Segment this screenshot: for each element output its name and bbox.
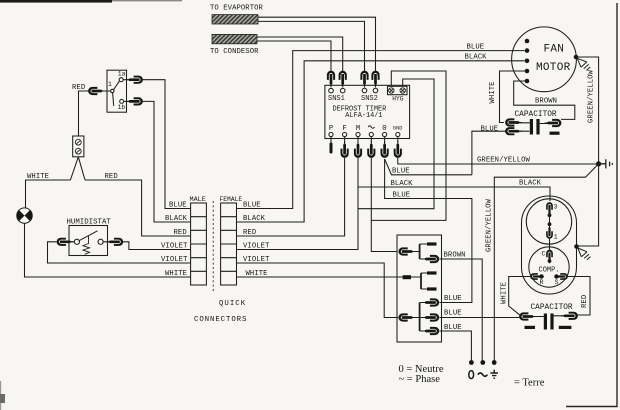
- quick connector terminal block (relay block): [397, 235, 442, 342]
- humidistat sensor zigzag: [83, 236, 90, 255]
- svg-text:1: 1: [108, 81, 112, 88]
- compressor capacitor plates: [544, 314, 547, 330]
- fan capacitor terminal lower-left spade: [505, 127, 522, 135]
- svg-text:SNS2: SNS2: [361, 95, 378, 103]
- wire timer F to female RED row: [237, 158, 345, 236]
- wire fan BROWN to capacitor: [514, 81, 575, 119]
- wire RED compressor S to capacitor: [568, 277, 591, 316]
- compressor capacitor spare bar right: [559, 326, 572, 329]
- svg-text:ALFA-14/1: ALFA-14/1: [345, 112, 382, 120]
- svg-text:1b: 1b: [118, 104, 126, 111]
- wire lamp to male WHITE row: [25, 223, 191, 277]
- wire BLUE block to neutral terminal: [440, 331, 472, 361]
- svg-text:1: 1: [554, 234, 558, 241]
- earth terminal node: [492, 360, 497, 365]
- svg-text:RED: RED: [174, 229, 187, 237]
- wire switch 1b down to male BLACK row: [143, 101, 191, 222]
- svg-text:RED: RED: [243, 229, 256, 237]
- wire timer M to HYG right screw: [358, 79, 434, 209]
- timer pin M: [356, 132, 360, 136]
- block group1 BROWN spade: [423, 255, 440, 263]
- block group2 spare bar bottom: [427, 287, 437, 290]
- compressor chassis earth node: [574, 244, 579, 249]
- earth junction node: [596, 161, 601, 166]
- svg-text:SNS1: SNS1: [328, 95, 345, 103]
- node below C: [548, 259, 552, 263]
- switch feed spade: [88, 87, 105, 95]
- overload terminal 1 spade: [546, 225, 553, 239]
- compressor terminal S spade: [554, 273, 568, 280]
- scan edge top-left: [0, 0, 112, 3]
- wire timer M down to female VIOLET row: [237, 209, 359, 250]
- defrost timer box U1: [325, 85, 410, 138]
- wire timer ~ down to terminal block: [371, 158, 397, 252]
- compressor terminal R node: [539, 274, 543, 278]
- wire switch 1b to male BLACK: [124, 100, 131, 102]
- spade on switch 1b: [126, 97, 143, 105]
- timer pin GND: [396, 132, 400, 136]
- timer pin ~: [369, 132, 373, 136]
- wire fan earth to green/yellow bus: [576, 57, 599, 246]
- svg-text:BLACK: BLACK: [165, 215, 188, 223]
- block group2 spare bar top: [427, 271, 437, 274]
- compressor capacitor left spade: [519, 312, 536, 320]
- wire green/yellow earth terminal to earth junction: [494, 164, 598, 361]
- female quick connector block: [221, 203, 237, 285]
- HYG screw terminal right: [400, 88, 405, 93]
- wire BLUE from timer 0 to fan capacitor (neutral): [385, 159, 472, 175]
- spade on SNS2 b: [371, 71, 379, 88]
- svg-text:BROWN: BROWN: [444, 252, 466, 260]
- wire fan BLACK from female connector: [237, 61, 525, 222]
- earth terminal symbol: [490, 370, 498, 379]
- spade on SNS2 a: [360, 71, 368, 88]
- compressor terminal R spade: [530, 273, 544, 280]
- svg-text:1a: 1a: [118, 70, 126, 77]
- border frame right: [566, 3, 617, 407]
- switch common terminal 1: [111, 89, 114, 92]
- block group3 link: [409, 303, 429, 332]
- compressor capacitor spare bar left: [525, 326, 536, 329]
- fan motor winding dots: [525, 39, 530, 84]
- svg-text:GREEN/YELLOW: GREEN/YELLOW: [588, 69, 596, 123]
- fan capacitor terminal upper-left spade: [505, 118, 522, 126]
- svg-text:WHITE: WHITE: [489, 81, 497, 103]
- evaporator sensor bulb: [212, 15, 258, 24]
- terminal SNS1 pin a: [329, 88, 334, 93]
- spade on SNS1 b: [339, 71, 347, 88]
- switch lever: [113, 81, 120, 106]
- svg-text:GREEN/YELLOW: GREEN/YELLOW: [486, 198, 494, 252]
- svg-text:BLACK: BLACK: [465, 54, 488, 62]
- svg-text:WHITE: WHITE: [165, 270, 187, 278]
- wire BLUE fan capacitor down to neutral row: [472, 131, 506, 175]
- svg-text:VIOLET: VIOLET: [161, 256, 188, 264]
- svg-text:BLUE: BLUE: [243, 202, 261, 210]
- wire switch 1a down to male BLUE row: [143, 80, 191, 209]
- terminal SNS1 pin b: [340, 88, 345, 93]
- spade on SNS1 a: [327, 71, 335, 88]
- wire timer ~ to HYG left screw: [371, 71, 446, 220]
- fan capacitor terminal right spade: [545, 119, 562, 127]
- block group2 feed bar: [403, 275, 411, 279]
- wire WHITE to lamp: [26, 180, 71, 208]
- spade on pin 0: [381, 141, 389, 158]
- svg-text:BLUE: BLUE: [392, 168, 410, 176]
- switch terminal 1a: [119, 78, 123, 82]
- svg-text:GND: GND: [393, 126, 402, 132]
- svg-text:CONNECTORS: CONNECTORS: [194, 316, 247, 324]
- block group1 spare bar: [427, 242, 437, 245]
- humidistat terminal right: [98, 239, 103, 244]
- terminal SNS2 pin b: [373, 88, 378, 93]
- svg-text:M: M: [356, 125, 360, 133]
- wire BLUE from timer 0 down to terminal block: [385, 159, 472, 303]
- wire humidistat left to male VIOLET row 2: [48, 242, 191, 263]
- svg-text:HYG: HYG: [392, 96, 403, 103]
- fan motor chassis earth node: [574, 55, 579, 60]
- svg-text:MOTOR: MOTOR: [536, 62, 571, 74]
- neutral terminal node: [469, 360, 474, 365]
- wire BROWN to phase terminal: [440, 259, 483, 361]
- svg-text:3: 3: [554, 204, 558, 211]
- svg-text:CAPACITOR: CAPACITOR: [515, 111, 557, 119]
- svg-text:BLUE: BLUE: [481, 125, 499, 133]
- HYG terminal box: [388, 86, 408, 94]
- svg-text:FEMALE: FEMALE: [220, 196, 243, 203]
- svg-text:P: P: [329, 125, 333, 133]
- svg-text:BLUE: BLUE: [467, 43, 485, 51]
- selector switch S1: [107, 70, 127, 112]
- phase terminal node: [480, 360, 485, 365]
- block group3 BLUE spade 3: [423, 327, 440, 335]
- compressor capacitor right spade: [561, 312, 578, 320]
- compressor terminal C spade: [546, 250, 553, 264]
- svg-text:= Terre: = Terre: [514, 378, 545, 389]
- svg-text:F: F: [343, 125, 347, 133]
- svg-text:CAPACITOR: CAPACITOR: [531, 304, 573, 312]
- condenser sensor bulb: [212, 34, 257, 43]
- spade on pin GND: [394, 141, 402, 158]
- svg-text:BROWN: BROWN: [535, 98, 557, 106]
- compressor motor circle: [529, 247, 569, 287]
- terminal SNS2 pin a: [362, 88, 367, 93]
- indicator lamp H1: [17, 208, 32, 223]
- svg-text:COMP.: COMP.: [539, 266, 560, 274]
- wire female WHITE to block group2: [237, 276, 403, 278]
- svg-text:RED: RED: [581, 295, 589, 308]
- humidistat left spade: [57, 238, 74, 246]
- fan capacitor plates: [530, 119, 533, 135]
- humidistat terminal left: [74, 239, 79, 244]
- timer pin P: [329, 132, 333, 136]
- svg-text:GREEN/YELLOW: GREEN/YELLOW: [477, 157, 531, 165]
- block group1 left spade: [398, 247, 415, 255]
- wire condenser capillary A to SNS1 right: [257, 37, 343, 71]
- fan capacitor spare terminal bar: [550, 132, 560, 135]
- wire split to white and red: [70, 157, 85, 180]
- wire evaporator capillary B to SNS2 left: [258, 21, 365, 71]
- svg-text:BLACK: BLACK: [243, 215, 266, 223]
- svg-text:BLUE: BLUE: [444, 310, 462, 318]
- svg-text:QUICK: QUICK: [219, 300, 246, 308]
- fan chassis earth symbol: [577, 58, 590, 70]
- block group1 link: [409, 244, 429, 259]
- stub on pin P: [330, 143, 333, 154]
- HYG screw terminal left: [389, 88, 394, 93]
- block group2 link: [411, 273, 428, 289]
- compressor terminal 3 spade: [546, 202, 553, 216]
- timer pin F: [343, 132, 347, 136]
- wire female VIOLET2 to block group3: [237, 263, 399, 318]
- block group3 left spade: [398, 313, 415, 321]
- svg-text:TO CONDESOR: TO CONDESOR: [210, 48, 259, 56]
- fan motor M1: [512, 27, 577, 92]
- svg-text:BLUE: BLUE: [169, 202, 187, 210]
- wire evaporator capillary A to SNS2 right: [258, 17, 376, 71]
- overload protector circle: [526, 199, 571, 244]
- main earth symbol: [599, 159, 613, 168]
- wire overload to C terminal: [549, 239, 551, 250]
- svg-text:R: R: [540, 279, 544, 286]
- svg-text:BLUE: BLUE: [444, 295, 462, 303]
- timer pin 0: [383, 132, 387, 136]
- label ~ terminal: [478, 373, 488, 376]
- overload internal nodes: [548, 213, 552, 217]
- svg-text:VIOLET: VIOLET: [243, 243, 270, 251]
- wire condenser capillary B to SNS1 left: [257, 41, 331, 71]
- svg-text:S: S: [555, 279, 559, 286]
- svg-text:TO EVAPORTOR: TO EVAPORTOR: [210, 5, 264, 13]
- switch terminal 1b: [120, 99, 124, 103]
- compressor terminal S node: [554, 274, 558, 278]
- svg-text:MALE: MALE: [190, 196, 206, 204]
- wire humidistat right to male VIOLET row 1: [103, 242, 190, 250]
- svg-text:BLACK: BLACK: [519, 179, 542, 187]
- wire fan WHITE to capacitor: [500, 71, 528, 123]
- wire WHITE compressor R to capacitor: [509, 277, 531, 316]
- label 0 terminal: [469, 371, 474, 379]
- wire fan BLUE from female connector: [237, 51, 525, 209]
- humidistat switch lever: [79, 231, 97, 241]
- wire BLACK from timer M to compressor: [358, 187, 550, 201]
- svg-text:BLACK: BLACK: [391, 180, 414, 188]
- svg-text:0: 0: [382, 125, 386, 133]
- wire GND green/yellow to earth: [398, 158, 599, 164]
- wire RED switch feed: [79, 91, 111, 136]
- humidistat right spade: [107, 238, 124, 246]
- svg-text:FAN: FAN: [544, 44, 565, 56]
- male quick connector block: [191, 203, 207, 285]
- wire overload internal: [549, 209, 551, 231]
- separator dashed line: [212, 201, 214, 291]
- spade on pin F: [341, 141, 349, 158]
- wire switch 1a to male BLUE: [123, 79, 130, 81]
- wire RED to male RED row: [85, 180, 191, 236]
- compressor chassis earth symbol: [578, 248, 591, 260]
- wire BLUE block to compressor capacitor: [440, 317, 521, 319]
- svg-text:C: C: [542, 251, 546, 258]
- junction strip connector: [73, 136, 84, 157]
- svg-text:WHITE: WHITE: [501, 282, 509, 304]
- spade on pin ~: [367, 141, 375, 158]
- svg-text:~ = Phase: ~ = Phase: [399, 374, 441, 385]
- block group3 BLUE spade 2: [423, 313, 440, 321]
- spade on switch 1a: [126, 76, 143, 84]
- spade on pin M: [354, 141, 362, 158]
- compressor housing: [522, 196, 577, 294]
- svg-text:VIOLET: VIOLET: [161, 243, 188, 251]
- svg-text:BLUE: BLUE: [393, 191, 411, 199]
- block group3 BLUE spade 1: [423, 298, 440, 306]
